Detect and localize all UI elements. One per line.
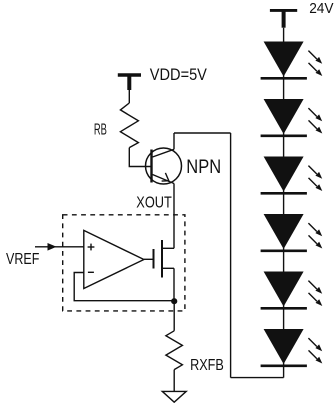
svg-text:RB: RB [94,121,107,138]
wire feedback [74,273,174,301]
wire emitter to mosfet drain [173,184,175,249]
wire node to RXFB [173,301,175,331]
junction node [171,298,177,304]
power symbol 24V [270,10,297,27]
svg-text:24V: 24V [309,0,333,17]
wire VDD to RB [128,90,130,103]
svg-text:VREF: VREF [6,251,39,268]
resistor RB [120,103,138,148]
LED D4 [261,214,323,251]
wire LED string spine [283,28,285,378]
LED D3 [261,157,323,194]
op-amp U1 [84,230,144,288]
ground [162,391,186,402]
dashed box [63,215,185,311]
svg-text:RXFB: RXFB [190,357,224,374]
wire mosfet source down [173,268,175,300]
transistor M1 mosfet [154,240,175,278]
wire bottom horizontal [231,377,284,379]
LED D1 [261,42,323,79]
wire collector up [173,133,175,149]
resistor RXFB [166,331,183,370]
wire VREF input [35,246,84,248]
LED D6 [261,329,323,366]
LED D5 [261,272,323,309]
wire RB to base [129,148,150,167]
svg-text:NPN: NPN [186,156,221,178]
wire right vertical [230,133,232,378]
svg-text:XOUT: XOUT [136,195,172,212]
wire RXFB to ground [173,370,175,392]
wire op-amp output to gate [144,258,154,260]
power symbol VDD [118,75,141,90]
LED D2 [261,99,323,136]
svg-text:VDD=5V: VDD=5V [150,66,207,84]
arrow VREF [48,243,57,251]
transistor Q1 NPN [146,148,182,184]
wire top horizontal [174,132,231,134]
